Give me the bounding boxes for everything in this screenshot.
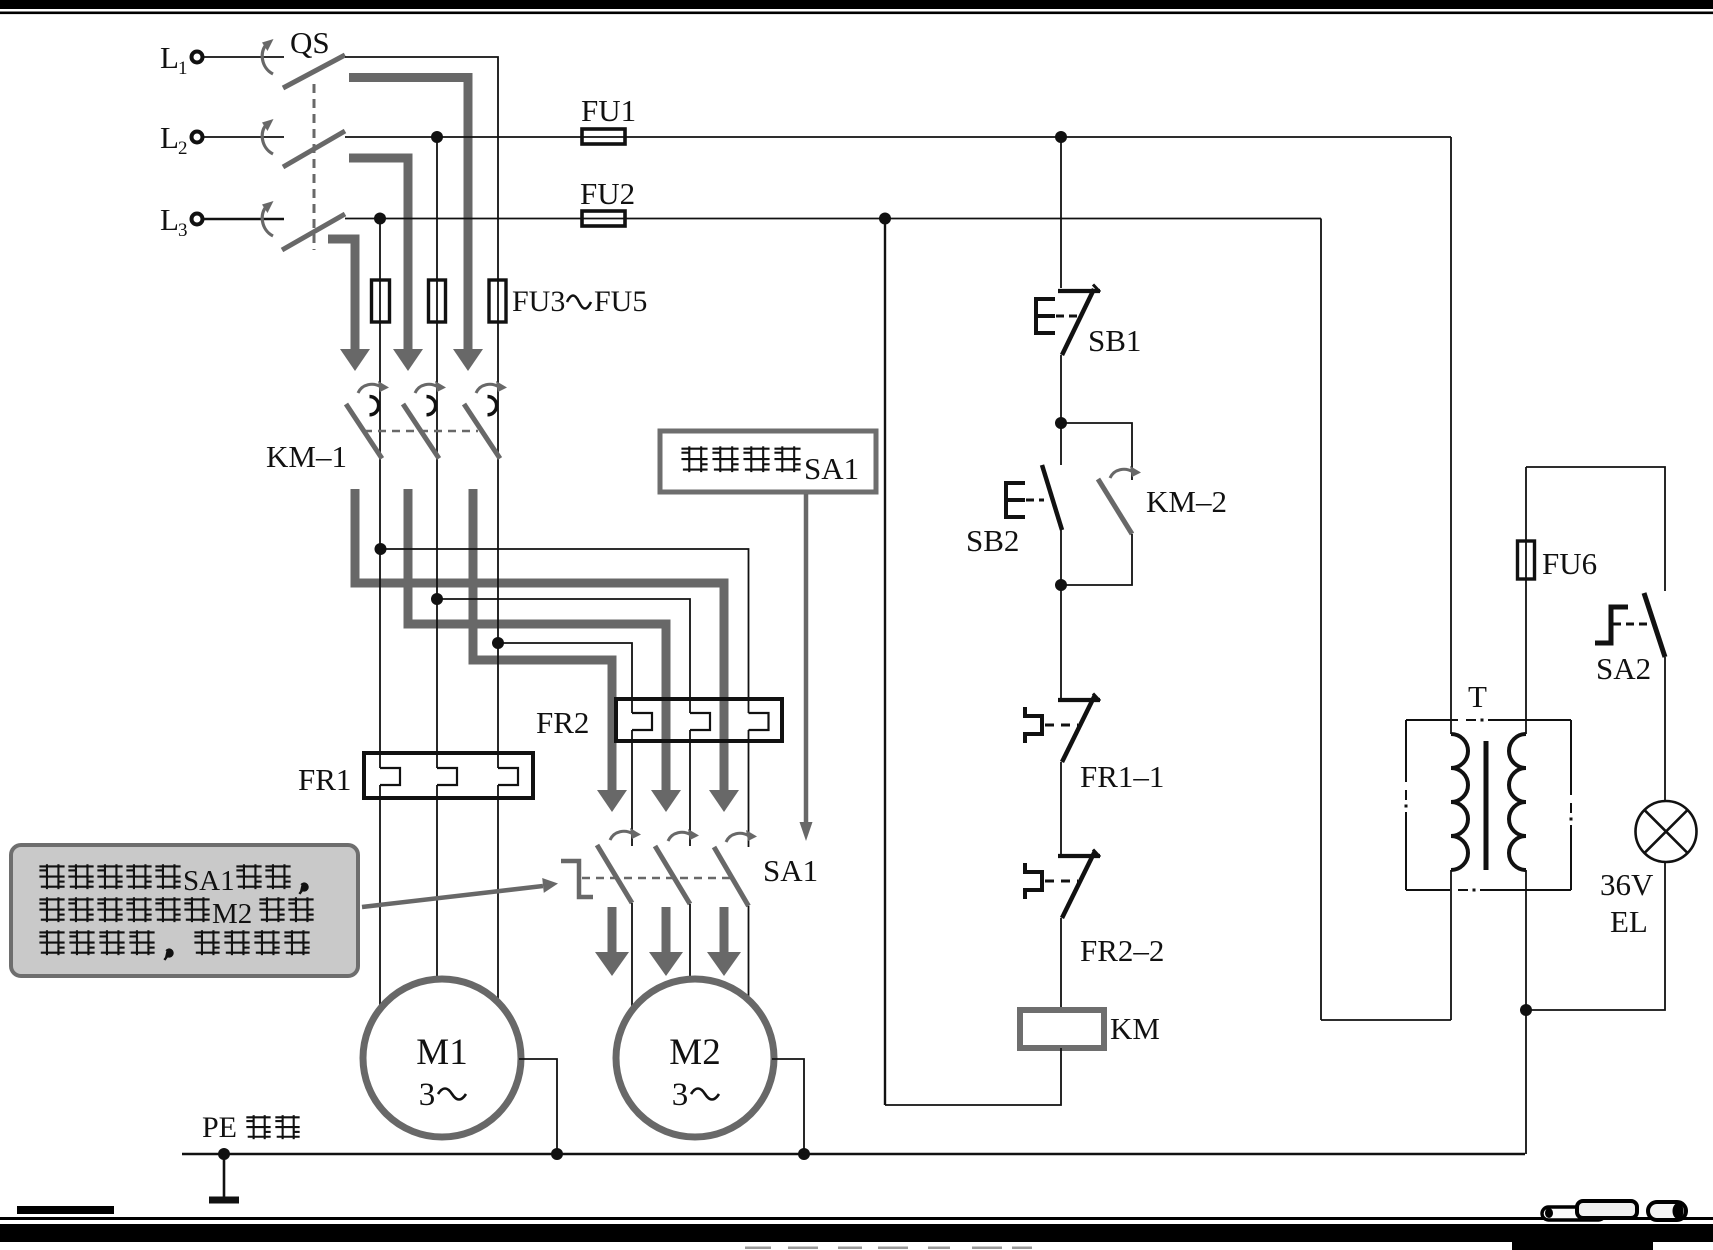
junction PE ground bbox=[218, 1148, 230, 1160]
svg-text:FR1–1: FR1–1 bbox=[1080, 759, 1164, 794]
wire branch B lower bbox=[689, 730, 691, 846]
svg-text:FU6: FU6 bbox=[1542, 546, 1597, 581]
motor M2 bbox=[616, 979, 774, 1137]
wire L2 branch down bbox=[436, 137, 438, 768]
svg-text:PE: PE bbox=[202, 1111, 237, 1144]
switch SA1 rotate arrow pole2 bbox=[668, 829, 699, 841]
svg-text:M2: M2 bbox=[669, 1032, 720, 1073]
wire SA1 out3 bbox=[748, 906, 750, 1012]
svg-text:M2: M2 bbox=[212, 898, 252, 930]
wire L3 branch down bbox=[379, 219, 381, 769]
junction M1 PE bbox=[551, 1148, 563, 1160]
border frame bottom bbox=[0, 1206, 1713, 1250]
switch QS blade pole1 bbox=[283, 55, 345, 88]
wire KM-2 return bbox=[1061, 534, 1132, 585]
svg-text:FU2: FU2 bbox=[580, 176, 635, 211]
junction KM-2 bottom bbox=[1055, 579, 1067, 591]
thermal relay FR2 heater3 bbox=[749, 713, 769, 730]
switch QS rotate arrow pole1 bbox=[262, 39, 274, 74]
label FR2-2 bbox=[1080, 933, 1164, 968]
switch SA1 blade pole3 bbox=[714, 847, 749, 906]
label SA1 bbox=[763, 853, 818, 888]
label FU1 bbox=[581, 93, 636, 128]
coil KM bbox=[1020, 1010, 1104, 1048]
label FU2 bbox=[580, 176, 635, 211]
terminal L1 bbox=[160, 40, 203, 79]
thermal relay FR1 heater3 bbox=[498, 768, 518, 785]
callout note box bbox=[11, 845, 358, 976]
label PE ground bbox=[202, 1111, 300, 1144]
fuse FU1 bbox=[582, 129, 625, 144]
svg-text:2: 2 bbox=[178, 138, 188, 159]
svg-text:FR1: FR1 bbox=[298, 762, 351, 797]
thermal relay FR1 heater1 bbox=[380, 768, 400, 785]
terminal L2 bbox=[160, 120, 203, 159]
fuse FU6 bbox=[1518, 541, 1535, 579]
switch SA1 handle bbox=[561, 861, 593, 897]
wire L1 feed lower bbox=[497, 785, 499, 1003]
svg-text:3: 3 bbox=[178, 220, 188, 241]
contactor KM-1 pole2 bbox=[403, 381, 446, 459]
transformer T enclosure bbox=[1405, 719, 1573, 892]
switch SA1 link dashed bbox=[582, 877, 731, 880]
svg-text:36V: 36V bbox=[1600, 867, 1654, 902]
wire transformer bottom link bbox=[1321, 1019, 1451, 1021]
wire SA1 out1 bbox=[631, 903, 633, 1012]
callout SA1 leader arrow bbox=[800, 494, 813, 841]
label KM bbox=[1110, 1011, 1160, 1046]
wire KM-2 branch bbox=[1061, 423, 1132, 480]
junction L3 branch bbox=[374, 213, 386, 225]
svg-text:M1: M1 bbox=[416, 1032, 467, 1073]
svg-text:L: L bbox=[160, 202, 179, 237]
transformer T core bbox=[1484, 741, 1489, 870]
label FR1 bbox=[298, 762, 351, 797]
wire L1 to QS bbox=[203, 56, 284, 58]
svg-text:FR2–2: FR2–2 bbox=[1080, 933, 1164, 968]
thermal relay FR1 heater2 bbox=[437, 768, 457, 785]
wire FR1-1 to FR2-2 bbox=[1060, 762, 1062, 854]
label SB1 bbox=[1088, 323, 1141, 358]
contact KM-2 rotate arrow bbox=[1110, 466, 1141, 478]
wire FR2-2 to KM coil bbox=[1060, 918, 1062, 1010]
svg-text:EL: EL bbox=[1610, 904, 1648, 939]
current arrow to M2 b bbox=[649, 907, 683, 976]
svg-text:QS: QS bbox=[290, 25, 330, 60]
switch SA1 blade pole2 bbox=[655, 846, 690, 904]
svg-text:FU3: FU3 bbox=[512, 285, 565, 318]
contactor KM-1 link dashed bbox=[364, 430, 478, 433]
wire lamp branch top bbox=[1526, 467, 1665, 591]
switch SA1 rotate arrow pole1 bbox=[610, 828, 641, 840]
wire secondary top bbox=[1525, 467, 1527, 734]
label SA2 bbox=[1596, 651, 1651, 686]
junction node A bbox=[375, 543, 387, 555]
junction M2 PE bbox=[798, 1148, 810, 1160]
svg-text:SA1: SA1 bbox=[763, 853, 818, 888]
junction node B bbox=[431, 593, 443, 605]
label FR2 bbox=[536, 705, 589, 740]
wire L1 feed bbox=[345, 57, 498, 768]
wire L2 branch lower bbox=[436, 785, 438, 981]
current path crossover 3 bbox=[473, 489, 627, 812]
lamp EL bbox=[1636, 801, 1697, 862]
junction KM-2 top bbox=[1055, 417, 1067, 429]
fuse FU4 bbox=[429, 280, 446, 322]
svg-text:FR2: FR2 bbox=[536, 705, 589, 740]
wire branch C bbox=[498, 643, 632, 713]
current arrow to M2 a bbox=[595, 907, 629, 976]
wire FU1 line down bbox=[1450, 137, 1452, 734]
contact FR1-1 bbox=[1025, 694, 1100, 763]
svg-text:SA1: SA1 bbox=[183, 865, 235, 897]
wire KM coil bottom bbox=[885, 1048, 1061, 1105]
switch QS rotate arrow pole2 bbox=[262, 119, 274, 154]
wire L3 feed bbox=[345, 218, 1321, 220]
switch QS rotate arrow pole3 bbox=[262, 201, 274, 236]
switch QS blade pole2 bbox=[283, 131, 345, 167]
label SB2 bbox=[966, 523, 1019, 558]
wire L2 to QS bbox=[203, 136, 284, 138]
decor rolls doodle bbox=[1542, 1201, 1686, 1220]
wire M1 to PE bbox=[519, 1059, 557, 1150]
junction L2 branch bbox=[431, 131, 443, 143]
thermal relay FR1 box bbox=[364, 753, 533, 798]
wire SB2 to FR1-1 bbox=[1060, 530, 1062, 698]
wire L3 to QS bbox=[203, 218, 284, 221]
wire branch A bbox=[381, 549, 749, 713]
current arrow from L1 bbox=[349, 78, 483, 372]
wire control rail left bbox=[884, 219, 886, 1106]
label QS bbox=[290, 25, 330, 60]
wire L2 feed bbox=[345, 136, 1451, 138]
fuse FU3 bbox=[372, 280, 390, 322]
junction control rail left bbox=[879, 213, 891, 225]
switch QS blade pole3 bbox=[282, 214, 345, 250]
junction node C bbox=[492, 637, 504, 649]
svg-text:FU1: FU1 bbox=[581, 93, 636, 128]
wire SB1 to SB2 bbox=[1060, 355, 1062, 465]
pushbutton SB2 bbox=[1006, 465, 1062, 530]
contactor KM-1 pole1 bbox=[346, 381, 389, 459]
transformer T secondary winding bbox=[1509, 734, 1526, 870]
wire SA1 out2 bbox=[689, 904, 691, 1012]
switch SA1 rotate arrow pole3 bbox=[726, 830, 757, 842]
wire PE bus bbox=[182, 1153, 1525, 1156]
current path crossover 2 bbox=[408, 489, 681, 812]
svg-text:1: 1 bbox=[178, 58, 188, 79]
thermal relay FR2 heater2 bbox=[690, 713, 710, 730]
thermal relay FR2 box bbox=[616, 699, 782, 741]
svg-text:SA1: SA1 bbox=[804, 451, 859, 486]
svg-text:SB1: SB1 bbox=[1088, 323, 1141, 358]
svg-text:SA2: SA2 bbox=[1596, 651, 1651, 686]
fuse FU2 bbox=[582, 211, 625, 226]
wire SA2 to lamp bbox=[1664, 657, 1666, 801]
svg-text:3: 3 bbox=[672, 1077, 689, 1113]
wire control rail top bbox=[1060, 137, 1062, 288]
transformer T primary winding bbox=[1451, 734, 1468, 870]
current arrow from L2 bbox=[349, 158, 423, 371]
wire L3 branch lower bbox=[379, 785, 381, 1008]
switch SA2 blade bbox=[1644, 593, 1665, 657]
wire branch B bbox=[437, 599, 690, 713]
junction control tap bbox=[1055, 131, 1067, 143]
current path crossover 1 bbox=[355, 489, 739, 812]
svg-text:FU5: FU5 bbox=[594, 285, 647, 318]
wire M2 to PE bbox=[772, 1059, 804, 1150]
current arrow from L3 bbox=[328, 239, 370, 371]
svg-text:KM–1: KM–1 bbox=[266, 439, 347, 474]
motor M1 bbox=[363, 979, 521, 1137]
label T bbox=[1468, 679, 1487, 714]
contact KM-2 blade bbox=[1098, 479, 1132, 534]
switch SA2 link dashed bbox=[1613, 623, 1649, 626]
wire primary bottom bbox=[1450, 870, 1452, 1020]
callout box SA1 note bbox=[660, 431, 876, 492]
current arrow to M2 c bbox=[707, 907, 741, 976]
terminal L3 bbox=[160, 202, 203, 241]
wire branch C lower bbox=[631, 730, 633, 846]
switch QS link dashed bbox=[313, 84, 316, 250]
caption stubs bbox=[745, 1247, 1032, 1250]
switch SA2 handle bbox=[1595, 607, 1628, 643]
contactor KM-1 pole3 bbox=[464, 381, 507, 459]
wire lamp return bbox=[1526, 862, 1665, 1010]
label FU6 bbox=[1542, 546, 1597, 581]
pushbutton SB1 bbox=[1036, 285, 1100, 356]
contact FR2-2 bbox=[1025, 850, 1100, 919]
switch SA1 blade pole1 bbox=[597, 845, 632, 903]
ground symbol bbox=[209, 1154, 239, 1200]
wire secondary bottom bbox=[1525, 870, 1527, 1154]
label KM-1 bbox=[266, 439, 347, 474]
junction lamp return bbox=[1520, 1004, 1532, 1016]
label EL bbox=[1610, 904, 1648, 939]
callout note arrow bbox=[362, 878, 558, 907]
wire FU2 line down bbox=[1320, 219, 1322, 1021]
label KM-2 bbox=[1146, 484, 1227, 519]
thermal relay FR2 heater1 bbox=[632, 713, 652, 730]
svg-text:SB2: SB2 bbox=[966, 523, 1019, 558]
svg-text:L: L bbox=[160, 40, 179, 75]
svg-text:KM–2: KM–2 bbox=[1146, 484, 1227, 519]
wire branch A lower bbox=[748, 730, 750, 847]
svg-text:KM: KM bbox=[1110, 1011, 1160, 1046]
border frame top bbox=[0, 0, 1713, 14]
fuse FU5 bbox=[489, 280, 506, 322]
label 36V bbox=[1600, 867, 1654, 902]
svg-text:3: 3 bbox=[419, 1077, 436, 1113]
svg-text:L: L bbox=[160, 120, 179, 155]
label FU3~FU5 bbox=[512, 285, 647, 318]
label FR1-1 bbox=[1080, 759, 1164, 794]
svg-text:T: T bbox=[1468, 679, 1487, 714]
